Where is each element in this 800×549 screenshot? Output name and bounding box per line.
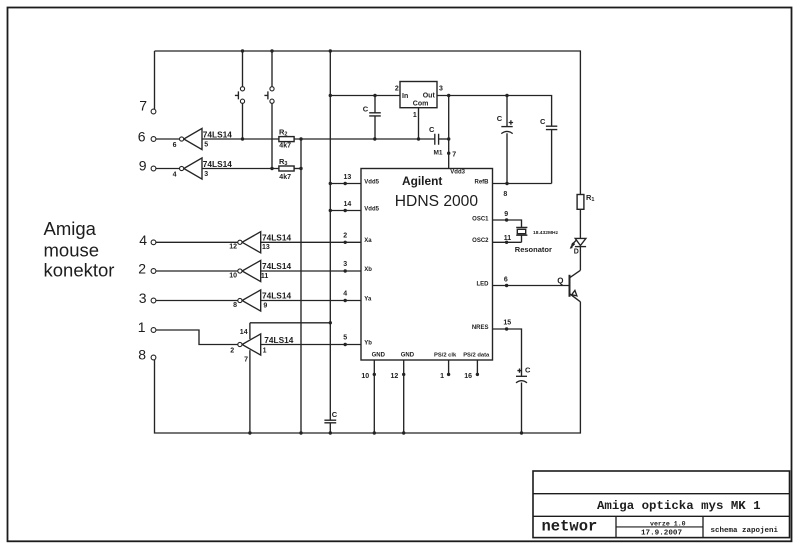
svg-text:Xa: Xa [364, 238, 372, 244]
svg-text:2: 2 [343, 232, 347, 239]
svg-text:Vdd5: Vdd5 [364, 179, 379, 185]
svg-text:8: 8 [138, 347, 146, 363]
svg-text:Q: Q [557, 276, 563, 285]
svg-text:Amiga opticka mys MK 1: Amiga opticka mys MK 1 [597, 499, 761, 513]
svg-text:In: In [402, 93, 408, 100]
svg-text:17.9.2007: 17.9.2007 [641, 530, 682, 538]
svg-text:7: 7 [452, 151, 456, 158]
svg-text:7: 7 [139, 98, 147, 114]
svg-text:15: 15 [503, 320, 511, 327]
svg-text:10: 10 [361, 373, 369, 380]
svg-text:4: 4 [173, 172, 177, 179]
svg-text:10: 10 [229, 272, 237, 279]
svg-text:C: C [497, 114, 503, 123]
svg-text:C: C [363, 105, 369, 114]
svg-text:Agilent: Agilent [402, 174, 442, 188]
svg-text:74LS14: 74LS14 [262, 232, 291, 242]
svg-text:Yb: Yb [364, 340, 372, 346]
svg-text:74LS14: 74LS14 [262, 291, 291, 301]
svg-text:6: 6 [504, 277, 508, 284]
svg-text:OSC1: OSC1 [472, 216, 489, 222]
svg-text:M1: M1 [434, 150, 443, 157]
svg-text:verze 1.0: verze 1.0 [650, 520, 686, 527]
svg-text:1: 1 [413, 112, 417, 119]
svg-text:74LS14: 74LS14 [262, 261, 291, 271]
svg-text:74LS14: 74LS14 [264, 335, 293, 345]
svg-text:6: 6 [173, 142, 177, 149]
svg-text:NRES: NRES [472, 325, 489, 331]
svg-text:9: 9 [139, 158, 147, 174]
svg-text:C: C [332, 410, 338, 419]
svg-text:74LS14: 74LS14 [203, 130, 232, 140]
svg-text:LED: LED [477, 281, 490, 287]
svg-text:PS/2 data: PS/2 data [463, 352, 490, 358]
svg-text:9: 9 [263, 302, 267, 309]
svg-text:3: 3 [343, 261, 347, 268]
svg-text:1: 1 [263, 348, 267, 355]
svg-text:konektor: konektor [44, 260, 115, 281]
svg-text:18.432MHz: 18.432MHz [533, 230, 559, 236]
svg-text:OSC2: OSC2 [472, 238, 489, 244]
svg-text:2: 2 [138, 261, 146, 277]
svg-text:4: 4 [343, 290, 347, 297]
svg-text:3: 3 [439, 85, 443, 92]
svg-text:HDNS 2000: HDNS 2000 [395, 193, 479, 210]
svg-text:GND: GND [372, 352, 386, 358]
svg-text:GND: GND [401, 352, 415, 358]
svg-text:RefB: RefB [474, 179, 489, 185]
svg-text:Vdd5: Vdd5 [364, 206, 379, 212]
svg-text:networ: networ [542, 518, 598, 536]
svg-text:8: 8 [233, 302, 237, 309]
svg-text:C: C [525, 366, 531, 375]
svg-text:D: D [574, 248, 579, 255]
svg-text:14: 14 [240, 329, 248, 336]
svg-text:Vdd3: Vdd3 [450, 170, 465, 176]
svg-text:Xb: Xb [364, 267, 372, 273]
svg-text:PS/2 clk: PS/2 clk [434, 352, 457, 358]
svg-text:1: 1 [138, 319, 146, 335]
svg-text:Ya: Ya [364, 296, 372, 302]
svg-text:4: 4 [139, 232, 147, 248]
svg-text:12: 12 [229, 244, 237, 251]
svg-text:schema zapojeni: schema zapojeni [711, 527, 779, 535]
svg-text:2: 2 [230, 348, 234, 355]
svg-text:14: 14 [344, 201, 352, 208]
svg-text:8: 8 [503, 191, 507, 198]
svg-text:Amiga: Amiga [44, 218, 97, 239]
svg-text:11: 11 [504, 235, 512, 242]
svg-text:Com: Com [413, 101, 429, 108]
svg-text:6: 6 [138, 129, 146, 145]
svg-text:C: C [429, 125, 435, 134]
svg-text:13: 13 [344, 174, 352, 181]
svg-text:74LS14: 74LS14 [203, 159, 232, 169]
svg-text:Resonator: Resonator [515, 245, 552, 254]
svg-text:11: 11 [261, 273, 269, 280]
svg-text:12: 12 [391, 373, 399, 380]
svg-text:9: 9 [504, 211, 508, 218]
svg-text:mouse: mouse [44, 240, 100, 261]
svg-text:Out: Out [423, 93, 436, 100]
svg-text:C: C [540, 117, 546, 126]
svg-text:4k7: 4k7 [279, 143, 291, 150]
svg-text:3: 3 [139, 290, 147, 306]
svg-text:16: 16 [464, 373, 472, 380]
svg-text:13: 13 [262, 244, 270, 251]
svg-text:5: 5 [343, 334, 347, 341]
svg-text:7: 7 [244, 356, 248, 363]
svg-text:1: 1 [440, 373, 444, 380]
svg-text:5: 5 [204, 142, 208, 149]
svg-text:2: 2 [395, 85, 399, 92]
svg-text:4k7: 4k7 [279, 174, 291, 181]
svg-text:3: 3 [204, 171, 208, 178]
